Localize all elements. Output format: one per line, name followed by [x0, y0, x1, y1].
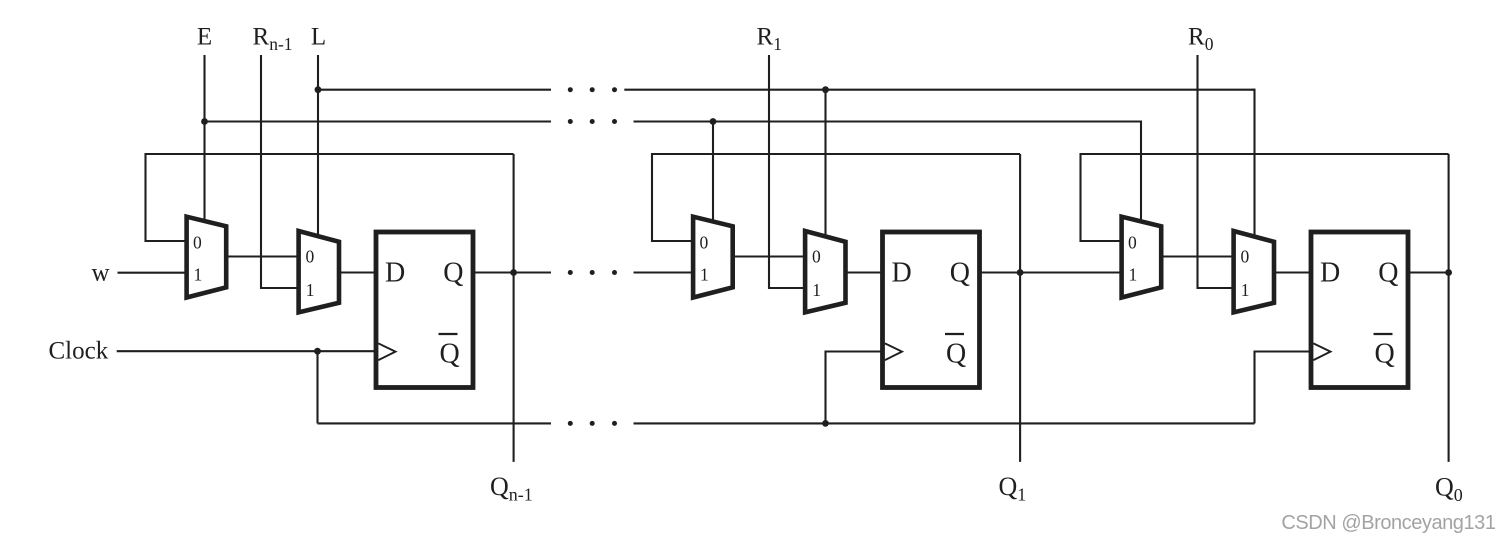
svg-text:E: E [197, 23, 212, 50]
svg-text:D: D [892, 258, 912, 289]
svg-text:0: 0 [700, 232, 709, 252]
mux: 2-to-1 enable mux (stage n-1) [187, 217, 227, 298]
wire: Q output (stage n-1) [473, 271, 551, 273]
wire: Rn-1 input vertical drop and stub to load mux data-1 [261, 55, 299, 288]
wire: L rail drop to stage-1 load-mux select [824, 90, 826, 237]
clock triangle pin [378, 343, 395, 360]
svg-text:Q: Q [443, 258, 463, 289]
wire: clock riser to FF0 clock pin [1255, 352, 1316, 424]
wire: shift chain into enable-mux data-1 (stage 0) [1020, 271, 1122, 273]
wire: load-mux output to D input (stage 0) [1274, 271, 1311, 273]
svg-text:Q: Q [950, 258, 970, 289]
wire: Q feedback loop into enable-mux data-0 (stage 1) [652, 154, 1020, 241]
wire: load-mux output to D input (stage 1) [846, 271, 883, 273]
mux: 2-to-1 enable mux (stage 1) [693, 217, 733, 298]
wire: Q vertical (feedback riser / output Qn-1 drop) [513, 154, 515, 462]
svg-text:1: 1 [1241, 280, 1250, 300]
wire: enable-mux output to load-mux data-0 (stage n-1) [226, 255, 298, 257]
wire: shift chain into enable-mux data-1 (stage 1) [634, 271, 694, 273]
flip-flop: D flip-flop (stage 0) [1311, 232, 1408, 388]
svg-text:0: 0 [193, 232, 202, 252]
node: Q1 output junction [1017, 269, 1024, 276]
svg-text:0: 0 [1241, 247, 1250, 267]
node: clock branch stage n-1 [314, 348, 321, 355]
wire: enable-mux output to load-mux data-0 (stage 1) [733, 255, 805, 257]
ellipsis dots on clock rail [568, 421, 573, 426]
wire: L select rail (right segment) [624, 89, 1254, 91]
wire: Q feedback loop into enable-mux data-0 (stage n-1) [146, 154, 514, 241]
svg-text:0: 0 [306, 247, 315, 267]
wire: R1 input vertical drop and stub to load mux data-1 [769, 55, 805, 288]
wire: clock rail (left segment, y=423) [318, 422, 552, 424]
svg-text:CSDN @Bronceyang131: CSDN @Bronceyang131 [1281, 512, 1495, 534]
svg-text:Q: Q [946, 339, 966, 370]
wire: load-mux output to D input (stage n-1) [339, 271, 376, 273]
mux: 2-to-1 load mux (stage n-1) [299, 231, 339, 312]
ellipsis dots on E rail [568, 119, 573, 124]
svg-text:1: 1 [194, 264, 203, 284]
svg-text:D: D [385, 258, 405, 289]
svg-text:Clock: Clock [49, 338, 109, 365]
svg-text:Q: Q [1378, 258, 1398, 289]
node: L rail tap stage n-1 [315, 86, 322, 93]
wire: E select rail (right segment) [634, 120, 1142, 122]
svg-text:0: 0 [1128, 232, 1137, 252]
wire: Q vertical (feedback riser / output Q0 drop) [1448, 154, 1450, 462]
wire: w input to enable-mux data-1 [118, 272, 187, 274]
svg-text:1: 1 [306, 280, 315, 300]
mux: 2-to-1 load mux (stage 0) [1234, 231, 1274, 312]
wire: E select rail (left segment, y=121.5) [205, 120, 552, 122]
wire: enable-mux output to load-mux data-0 (stage 0) [1161, 255, 1233, 257]
node: L rail tap stage 1 [822, 86, 829, 93]
mux: 2-to-1 enable mux (stage 0) [1122, 217, 1162, 298]
wire: clock riser to FF1 clock pin [826, 352, 887, 424]
ellipsis dots on shift chain (between stage n-1 and stage 1) [568, 270, 573, 275]
mux: 2-to-1 load mux (stage 1) [805, 231, 845, 312]
wire: Clock input to flip-flop FF2 clock pin [117, 350, 380, 352]
flip-flop: D flip-flop (stage n-1) [376, 232, 473, 388]
node: Qn-1 output junction [510, 269, 517, 276]
node: clock rail tap stage 1 [822, 420, 829, 427]
wire: E rail corner drop to stage-0 enable-mux select [1139, 122, 1141, 221]
svg-text:Q: Q [1375, 339, 1395, 370]
node: E rail tap stage 1 [710, 118, 717, 125]
svg-text:w: w [91, 260, 109, 287]
node: Q0 output junction [1445, 269, 1452, 276]
svg-text:0: 0 [812, 247, 821, 267]
svg-text:Q: Q [440, 339, 460, 370]
ellipsis dots on L rail [568, 87, 573, 92]
wire: Q vertical (feedback riser / output Q1 drop) [1019, 154, 1021, 462]
wire: clock rail (right segment) [634, 422, 1255, 424]
wire: L input vertical drop to load-mux select [317, 55, 319, 237]
node: E rail tap stage n-1 [201, 118, 208, 125]
flip-flop: D flip-flop (stage 1) [883, 232, 980, 388]
wire: E input vertical drop to mux select [203, 55, 205, 221]
wire: E rail drop to stage-1 enable-mux select [712, 122, 714, 221]
clock triangle pin [885, 343, 902, 360]
svg-text:1: 1 [700, 264, 709, 284]
svg-text:1: 1 [812, 280, 821, 300]
svg-text:L: L [311, 23, 326, 50]
svg-text:D: D [1320, 258, 1340, 289]
wire: clock drop to clock rail [316, 351, 318, 423]
wire: L select rail (left segment, y=90) [318, 89, 551, 91]
wire: Q output (stage 0) [1408, 271, 1449, 273]
clock triangle pin [1313, 343, 1330, 360]
wire: L rail corner drop to stage-0 load-mux select [1252, 90, 1254, 237]
wire: R0 input vertical drop and stub to load mux data-1 [1198, 55, 1234, 288]
wire: Q feedback loop into enable-mux data-0 (stage 0) [1081, 154, 1449, 241]
wire: Q output (stage 1) [980, 271, 1122, 273]
svg-text:1: 1 [1129, 264, 1138, 284]
